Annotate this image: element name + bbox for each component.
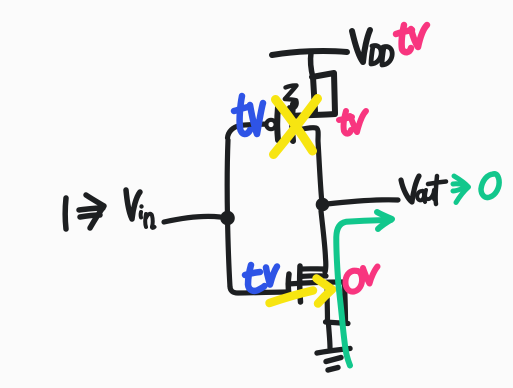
wire VDD rail to PMOS source [311, 53, 313, 78]
transistor Q1 PMOS source loop bottom [292, 114, 335, 116]
annotation yellow arrow at NMOS [270, 279, 333, 304]
wire input net vertical [227, 140, 230, 287]
transistor Q1 PMOS source loop left [313, 77, 315, 111]
wire output node down to NMOS drain [321, 211, 326, 272]
transistor Q2 NMOS drain line middle [300, 273, 326, 279]
wire ground tick [326, 322, 349, 324]
wire PMOS gate to input net [228, 124, 267, 138]
label Vin [126, 190, 140, 219]
wire ground stem [329, 324, 331, 348]
transistor Q2 NMOS gate bar [286, 274, 292, 295]
wire right side of loop at NMOS source [345, 283, 346, 322]
wire PMOS drain down to output node [294, 128, 322, 198]
node input junction [220, 211, 235, 226]
annotation 5V pink at PMOS source [339, 111, 366, 134]
annotation 5V pink at VDD [396, 25, 427, 52]
annotation green current path with arrow [336, 212, 392, 366]
transistor Q2 NMOS drain line upper [303, 266, 325, 271]
annotation yellow X over PMOS [274, 99, 318, 155]
transistor Q1 PMOS channel bar [289, 104, 296, 141]
ground bar 2 [326, 358, 341, 362]
transistor Q1 PMOS gate bar [274, 107, 281, 140]
wire NMOS source down (left side of loop) [324, 286, 330, 322]
label S source of PMOS [285, 85, 297, 108]
wire input net corner to NMOS gate [230, 286, 288, 293]
wire Vin lead [164, 216, 220, 222]
annotation 5V blue at NMOS gate [245, 265, 277, 291]
label VDD [352, 30, 392, 65]
label Vout [401, 176, 446, 204]
annotation 5V blue at PMOS gate [234, 96, 263, 134]
transistor Q1 PMOS gate bubble [266, 120, 275, 129]
ground bar 1 [317, 349, 350, 354]
transistor Q1 PMOS source loop top/right [312, 73, 335, 113]
transistor Q2 NMOS channel bar [297, 266, 303, 302]
label 1 (input value) [65, 190, 154, 229]
wire VDD rail [272, 51, 347, 55]
annotation teal implies arrow at Vout [453, 176, 469, 203]
node output junction [316, 198, 330, 212]
annotation 0V pink at NMOS [345, 267, 377, 292]
label input implies arrow [79, 208, 103, 217]
transistor Q2 NMOS drain line lower [288, 282, 344, 284]
wire output node to Vout label [327, 200, 398, 204]
annotation teal 0 at Vout [481, 174, 499, 198]
ground bar 3 [328, 368, 338, 371]
